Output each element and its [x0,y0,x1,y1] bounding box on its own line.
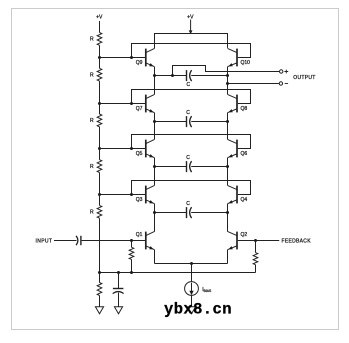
wire rail R1-node1 [99,45,101,57]
wire Q9 emitter down to next collector [154,67,156,95]
wire rail R4-node4 [99,173,101,195]
transistor Q4 base bar [236,186,238,204]
svg-text:ybx8.cn: ybx8.cn [164,301,232,319]
transistor Q1 emitter [146,246,155,250]
wire capacitor C2 left segment [155,121,187,123]
node Q7 base / loop junction [130,102,133,105]
resistor R8 feedback to bottom node [255,241,257,253]
node current source junction [190,262,193,265]
node C4 left junction [153,211,156,214]
capacitor C5 top wire [118,273,120,289]
svg-text:R: R [90,118,94,124]
wire Q5 emitter down to next collector [154,158,156,186]
wire Q1 emitter down [154,250,156,264]
wire OUTPUT - from Q10 emitter node [228,83,279,85]
wire Q7 emitter down to next collector [154,113,156,140]
wire rail R2-node2 [99,81,101,103]
node OUTPUT - junction [226,82,229,85]
transistor Q8 base bar [236,95,238,113]
transistor Q3 base bar [145,186,147,204]
node C2 left junction [153,120,156,123]
wire input cap to Q1 base (crosses ladder rail) [82,240,145,242]
wire Q6 emitter down to next collector [227,158,229,186]
wire rail node2-R3 [99,104,101,115]
svg-text:R: R [90,37,94,43]
resistor R4 [97,160,102,173]
node Q5 base / loop junction [130,147,133,150]
svg-text:R: R [90,210,94,216]
transistor Q9 base bar [145,49,147,67]
capacitor C3 [186,161,188,172]
wire Q4 emitter down to Q2 collector [227,204,229,232]
node C1 right junction [226,74,229,77]
terminal OUTPUT + circle [280,70,283,73]
wire Q5 base from ladder node [100,148,146,150]
wire bottom node line [100,272,256,274]
node C3 right junction [226,165,229,168]
node C4 right junction [226,211,229,214]
wire capacitor C3 left segment [155,166,187,168]
capacitor C5 straight plate [113,288,124,290]
wire base tie loop Q9-Q10 [132,44,251,58]
wire capacitor C2 right segment [191,121,227,123]
svg-text:Q9: Q9 [136,60,143,66]
svg-text:FEEDBACK: FEEDBACK [282,238,312,244]
transistor Q8 collector [228,94,237,98]
transistor Q7 base bar [145,95,147,113]
svg-text:Q6: Q6 [241,151,248,157]
transistor Q1 collector [146,231,155,235]
resistor R2 [97,68,102,81]
label - sign [285,83,288,85]
transistor Q10 collector [228,48,237,52]
transistor Q2 collector [228,231,237,235]
capacitor C5 curved plate [113,292,124,294]
transistor Q5 collector [146,139,155,143]
svg-text:C: C [186,155,190,161]
node FEEDBACK / R8 junction [254,239,257,242]
node Q3 base / loop junction [130,193,133,196]
wire rail node4-R5 [99,195,101,206]
svg-text:Q7: Q7 [136,106,143,112]
node Q9 base tap junction [98,56,101,59]
power +V arrowhead at rail [189,30,193,34]
wire Q3 base from ladder node [100,194,146,196]
capacitor C-input curved plate [76,236,78,245]
node Q5 base tap junction [98,147,101,150]
ground below R7 [95,307,103,314]
node Q3 base tap junction [98,193,101,196]
transistor Q10 emitter [228,63,237,67]
svg-text:C: C [186,110,190,116]
wire current source to ground [191,295,193,306]
node Q1 base / R6 junction [130,239,133,242]
resistor R6 Q1 base to bottom node [131,241,133,248]
resistor R1 [97,33,102,46]
transistor Q4 emitter [228,200,237,204]
wire Q3 emitter down to Q1 collector [154,204,156,232]
current source IBIAS arrow [191,283,193,292]
transistor Q1 base bar [145,232,147,250]
capacitor C4 [186,207,188,218]
transistor Q9 collector [146,48,155,52]
wire INPUT to coupling cap [54,240,77,242]
wire capacitor C4 left segment [155,212,187,214]
wire rail node3-R4 [99,149,101,160]
transistor Q6 emitter [228,154,237,158]
wire Q2 base to FEEDBACK [238,240,279,242]
resistor R3 [97,114,102,127]
wire emitter line to current source [191,264,193,282]
wire rail node1-R2 [99,58,101,69]
node bottom C junction [117,271,120,274]
svg-text:R: R [90,73,94,79]
wire Q8 emitter down to next collector [227,113,229,140]
transistor Q5 emitter [146,154,155,158]
transistor Q3 collector [146,185,155,189]
wire rail R5 down to bottom node (crosses input line) [99,218,101,272]
capacitor C-input straight plate [80,236,82,245]
label + sign [284,70,288,74]
svg-text:Q3: Q3 [136,197,143,203]
svg-text:C: C [186,82,190,88]
transistor Q5 base bar [145,140,147,158]
wire emitter join line [155,263,228,265]
node C1 left junction [153,74,156,77]
svg-text:Q1: Q1 [136,232,143,238]
wire base tie loop Q7-Q8 [132,90,251,104]
wire base tie loop Q5-Q6 [132,135,251,149]
wire base tie loop Q3-Q4 [132,181,251,195]
node C3 left junction [153,165,156,168]
wire capacitor C3 right segment [191,166,227,168]
transistor Q2 base bar [236,232,238,250]
transistor Q9 emitter [146,63,155,67]
node bottom rail corner junction [98,271,101,274]
current source IBIAS circle [185,282,199,296]
wire OUTPUT + tap from Q9 emitter node [173,66,280,76]
ground below current source [187,307,195,314]
transistor Q7 collector [146,94,155,98]
svg-text:Q10: Q10 [241,60,251,66]
wire capacitor C4 right segment [191,212,227,214]
svg-text:Q4: Q4 [241,197,248,203]
transistor Q2 emitter [228,246,237,250]
transistor Q8 emitter [228,109,237,113]
capacitor C2 [186,116,188,127]
transistor Q10 base bar [236,49,238,67]
node Q7 base tap junction [98,102,101,105]
node bottom R6 junction [130,271,133,274]
transistor Q6 collector [228,139,237,143]
wire Q9 base from ladder node [100,57,146,59]
svg-text:C: C [186,201,190,207]
transistor Q7 emitter [146,109,155,113]
svg-text:Q8: Q8 [241,106,248,112]
transistor Q4 collector [228,185,237,189]
transistor Q6 base bar [236,140,238,158]
svg-text:Q5: Q5 [136,151,143,157]
node C2 right junction [226,120,229,123]
ground below C5 [114,307,122,314]
wire top supply rail with corner drops to Q9/Q10 collectors [155,34,228,49]
wire Q10 emitter down to next collector [227,67,229,95]
wire rail R3-node3 [99,127,101,149]
node Q9 base / loop junction [130,56,133,59]
svg-text:+V: +V [96,15,103,21]
svg-text:R: R [90,164,94,170]
wire Q7 base from ladder node [100,103,146,105]
svg-text:Q2: Q2 [241,232,248,238]
svg-text:OUTPUT: OUTPUT [293,75,315,81]
wire C5 to ground [118,293,120,307]
wire capacitor C1 left segment [155,75,187,77]
node OUTPUT + tap junction [171,74,174,77]
wire capacitor C1 right segment [191,75,227,77]
terminal OUTPUT - circle [279,82,282,85]
resistor R5 [97,205,102,218]
resistor R7 bottom node to ground [99,273,101,283]
wire Q2 emitter down [227,250,229,264]
capacitor C1 [186,70,188,81]
svg-text:INPUT: INPUT [36,238,53,244]
transistor Q3 emitter [146,200,155,204]
